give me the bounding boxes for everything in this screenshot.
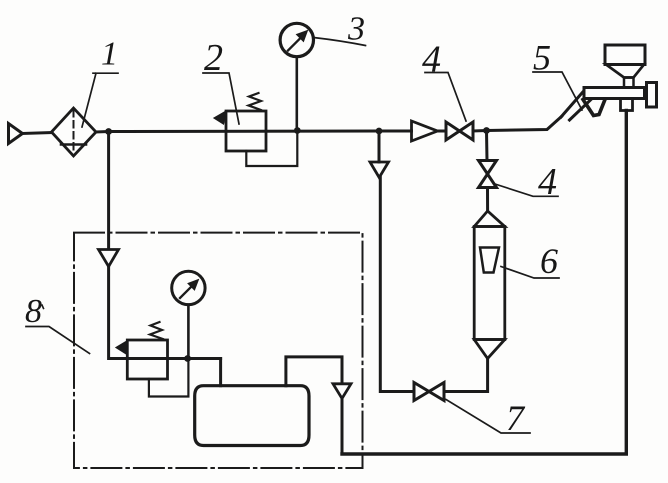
valve V7 (component 7) <box>414 383 444 401</box>
adjust arrow of regulator in box <box>116 340 128 353</box>
node C junction dot <box>376 128 383 135</box>
label 1 leader <box>82 73 118 127</box>
gauge G3 (component 3) <box>280 23 313 56</box>
gauge G3' (inside box 8) <box>172 271 205 304</box>
svg-text:6: 6 <box>540 241 558 281</box>
svg-text:4: 4 <box>422 39 441 81</box>
label 4a leader <box>425 73 466 122</box>
wire valve to rotameter <box>486 188 489 212</box>
svg-text:5: 5 <box>533 38 551 78</box>
wire gauge stem (box 8) <box>187 305 190 359</box>
wire tank outlet up and right <box>286 357 342 386</box>
spray gun (component 5) <box>561 45 657 120</box>
check valve CV2 on branch (outline, pointing down) <box>370 162 389 178</box>
filter F1 (component 1) <box>52 108 97 156</box>
svg-text:3: 3 <box>347 11 365 48</box>
label 4b leader <box>495 184 558 196</box>
label 3 leader <box>314 38 366 46</box>
gun bottom fitting <box>621 99 633 111</box>
node D junction dot <box>483 127 490 134</box>
label 6 leader <box>501 267 559 279</box>
wire gauge stem <box>295 57 298 131</box>
wire node C to check valve CV2 <box>378 131 381 162</box>
gun cup funnel <box>606 65 644 78</box>
svg-text:4: 4 <box>538 161 557 203</box>
wire regulator feedback loop <box>246 131 297 166</box>
svg-text:1: 1 <box>101 36 118 73</box>
wire inlet to filter <box>23 133 52 134</box>
gun nozzle <box>647 83 657 108</box>
tank (receiver, inside box 8) <box>195 386 309 446</box>
wire bottom return line to spray gun <box>342 111 626 455</box>
gun inlet tube inner edge <box>570 100 591 120</box>
rotameter float <box>480 248 499 273</box>
inlet arrow <box>9 124 23 144</box>
wire regulator feedback loop (box 8) <box>149 359 189 397</box>
node A junction dot <box>105 128 112 135</box>
label 8 leader <box>26 327 90 354</box>
wire outlet down to bottom line <box>341 399 344 455</box>
wire check valve to regulator line <box>109 267 221 359</box>
wire rotameter down to drain line <box>444 359 488 392</box>
gun inlet tube outer edge <box>561 90 585 118</box>
enclosure box 8 (dash-dot frame) <box>74 233 363 468</box>
wire <box>473 117 562 132</box>
svg-text:8: 8 <box>25 293 42 330</box>
spring of regulator 2 <box>249 93 262 110</box>
gun cup neck <box>624 78 634 88</box>
label 5 leader <box>533 72 582 110</box>
adjust arrow of regulator 2 <box>214 111 227 124</box>
wire branch down from node D <box>485 131 489 161</box>
gun cup <box>605 45 645 65</box>
wire main line filter to regulator <box>96 131 412 132</box>
svg-text:2: 2 <box>204 37 223 79</box>
gun barrel <box>584 88 645 99</box>
wire valve 7 to branch line <box>380 178 414 392</box>
check valve CV3 (inside box, pointing down) <box>99 250 119 267</box>
check valve CV4 (outlet, pointing down) <box>333 384 351 399</box>
rotameter (component 6) <box>474 211 505 359</box>
node B junction dot <box>294 127 301 134</box>
regulator R2' (inside box 8) <box>116 322 168 379</box>
label 7 leader <box>446 400 530 434</box>
wire <box>438 130 447 133</box>
svg-text:7: 7 <box>506 398 526 438</box>
label 2 leader <box>203 73 239 124</box>
regulator R2 (component 2) <box>214 93 266 151</box>
gun trigger <box>583 100 605 116</box>
check valve CV1 on main line <box>412 121 438 141</box>
wire down to tank <box>219 359 222 386</box>
node E junction dot <box>184 355 191 362</box>
wire branch down from node A <box>107 132 110 250</box>
valve V4a (component 4, horizontal) <box>446 122 473 140</box>
valve V4b (component 4, vertical) <box>479 161 497 188</box>
spring of regulator in box <box>150 322 163 339</box>
